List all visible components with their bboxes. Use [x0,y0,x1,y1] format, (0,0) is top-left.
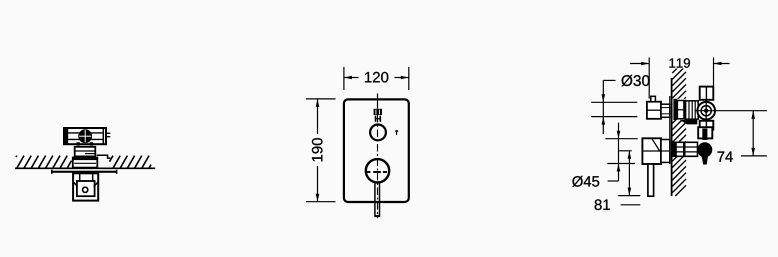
front view knob stem [376,116,381,122]
left view valve lower block [73,158,98,168]
left view screw circle [83,187,88,192]
dimension 74 line and arrows [751,111,755,156]
dimension text 74 [718,152,733,162]
front view lever handle [374,183,380,216]
dimension 74 reference lines [741,155,767,157]
dimension 119 line and arrows [630,62,730,66]
left view handle hub [78,129,92,143]
dimension text 120 [365,72,388,83]
front view small shower glyph [395,130,398,135]
body top extension line [605,138,637,140]
side view diverter rough body [647,96,661,118]
side view trim ring wedge [680,120,698,125]
left view rough-in box below wall [73,173,98,200]
front view lever hub slot marks [367,171,387,173]
dimension 81 top tick [619,150,632,152]
side view supply pipe stub [648,164,654,196]
left view valve upper block [75,147,96,157]
dimension 190 line and arrows [316,99,320,202]
side view diverter stem through wall [673,99,699,120]
dimension 81 leader tick [621,204,641,206]
left view cross handle bar [64,128,110,144]
dimension 120 line and arrows [344,76,409,80]
front view vertical centerline [377,94,379,219]
dimension lines for diameter 30 [591,80,637,134]
front view trim plate [344,99,409,202]
left view wall surface line [15,167,155,169]
left view wall hatch (left segment) [16,156,72,168]
side view wall front surface line [671,78,673,196]
dimension text diameter 45 [572,176,599,187]
dimension line for diameter 45 [608,123,621,181]
side view lever top bracket [698,127,712,140]
dimension 120 extension lines [344,67,409,90]
side view lever hub knob [697,142,712,157]
front view diverter circle [370,124,386,140]
dimension text 81 [595,199,610,210]
side view wall hatch [672,67,686,196]
left view finished-wall step symbol [97,155,111,158]
dimension text 190 [312,138,323,161]
dimension text diameter 30 [621,75,649,86]
dimension 81 line and arrows [618,151,640,196]
side view wall inner line [669,96,671,164]
left view wall hatch (right segment) [110,156,152,168]
body bottom extension line [607,163,635,165]
front view lever hub circle [366,159,389,182]
side view mixer rough body [642,138,669,164]
side view cross handle upper arm [700,87,714,100]
dimension 119 extension lines [649,58,713,99]
side view diverter neck [661,104,670,117]
left view rough-in neck lines [80,173,93,181]
left view rough-in inner box [77,181,95,196]
front view diverter knob [374,109,382,115]
side view cross handle hub [696,100,767,121]
dimension text 119 [666,57,694,69]
left view escutcheon plate (edge-on) [52,170,118,174]
dimension 190 extension ticks [306,99,336,202]
left view inner box corner clips [73,182,98,187]
left view hub flange feet [77,142,93,145]
side view cross handle lower arm [700,121,714,130]
side view lever tip [702,156,708,164]
side view lever stem through wall [673,142,698,156]
